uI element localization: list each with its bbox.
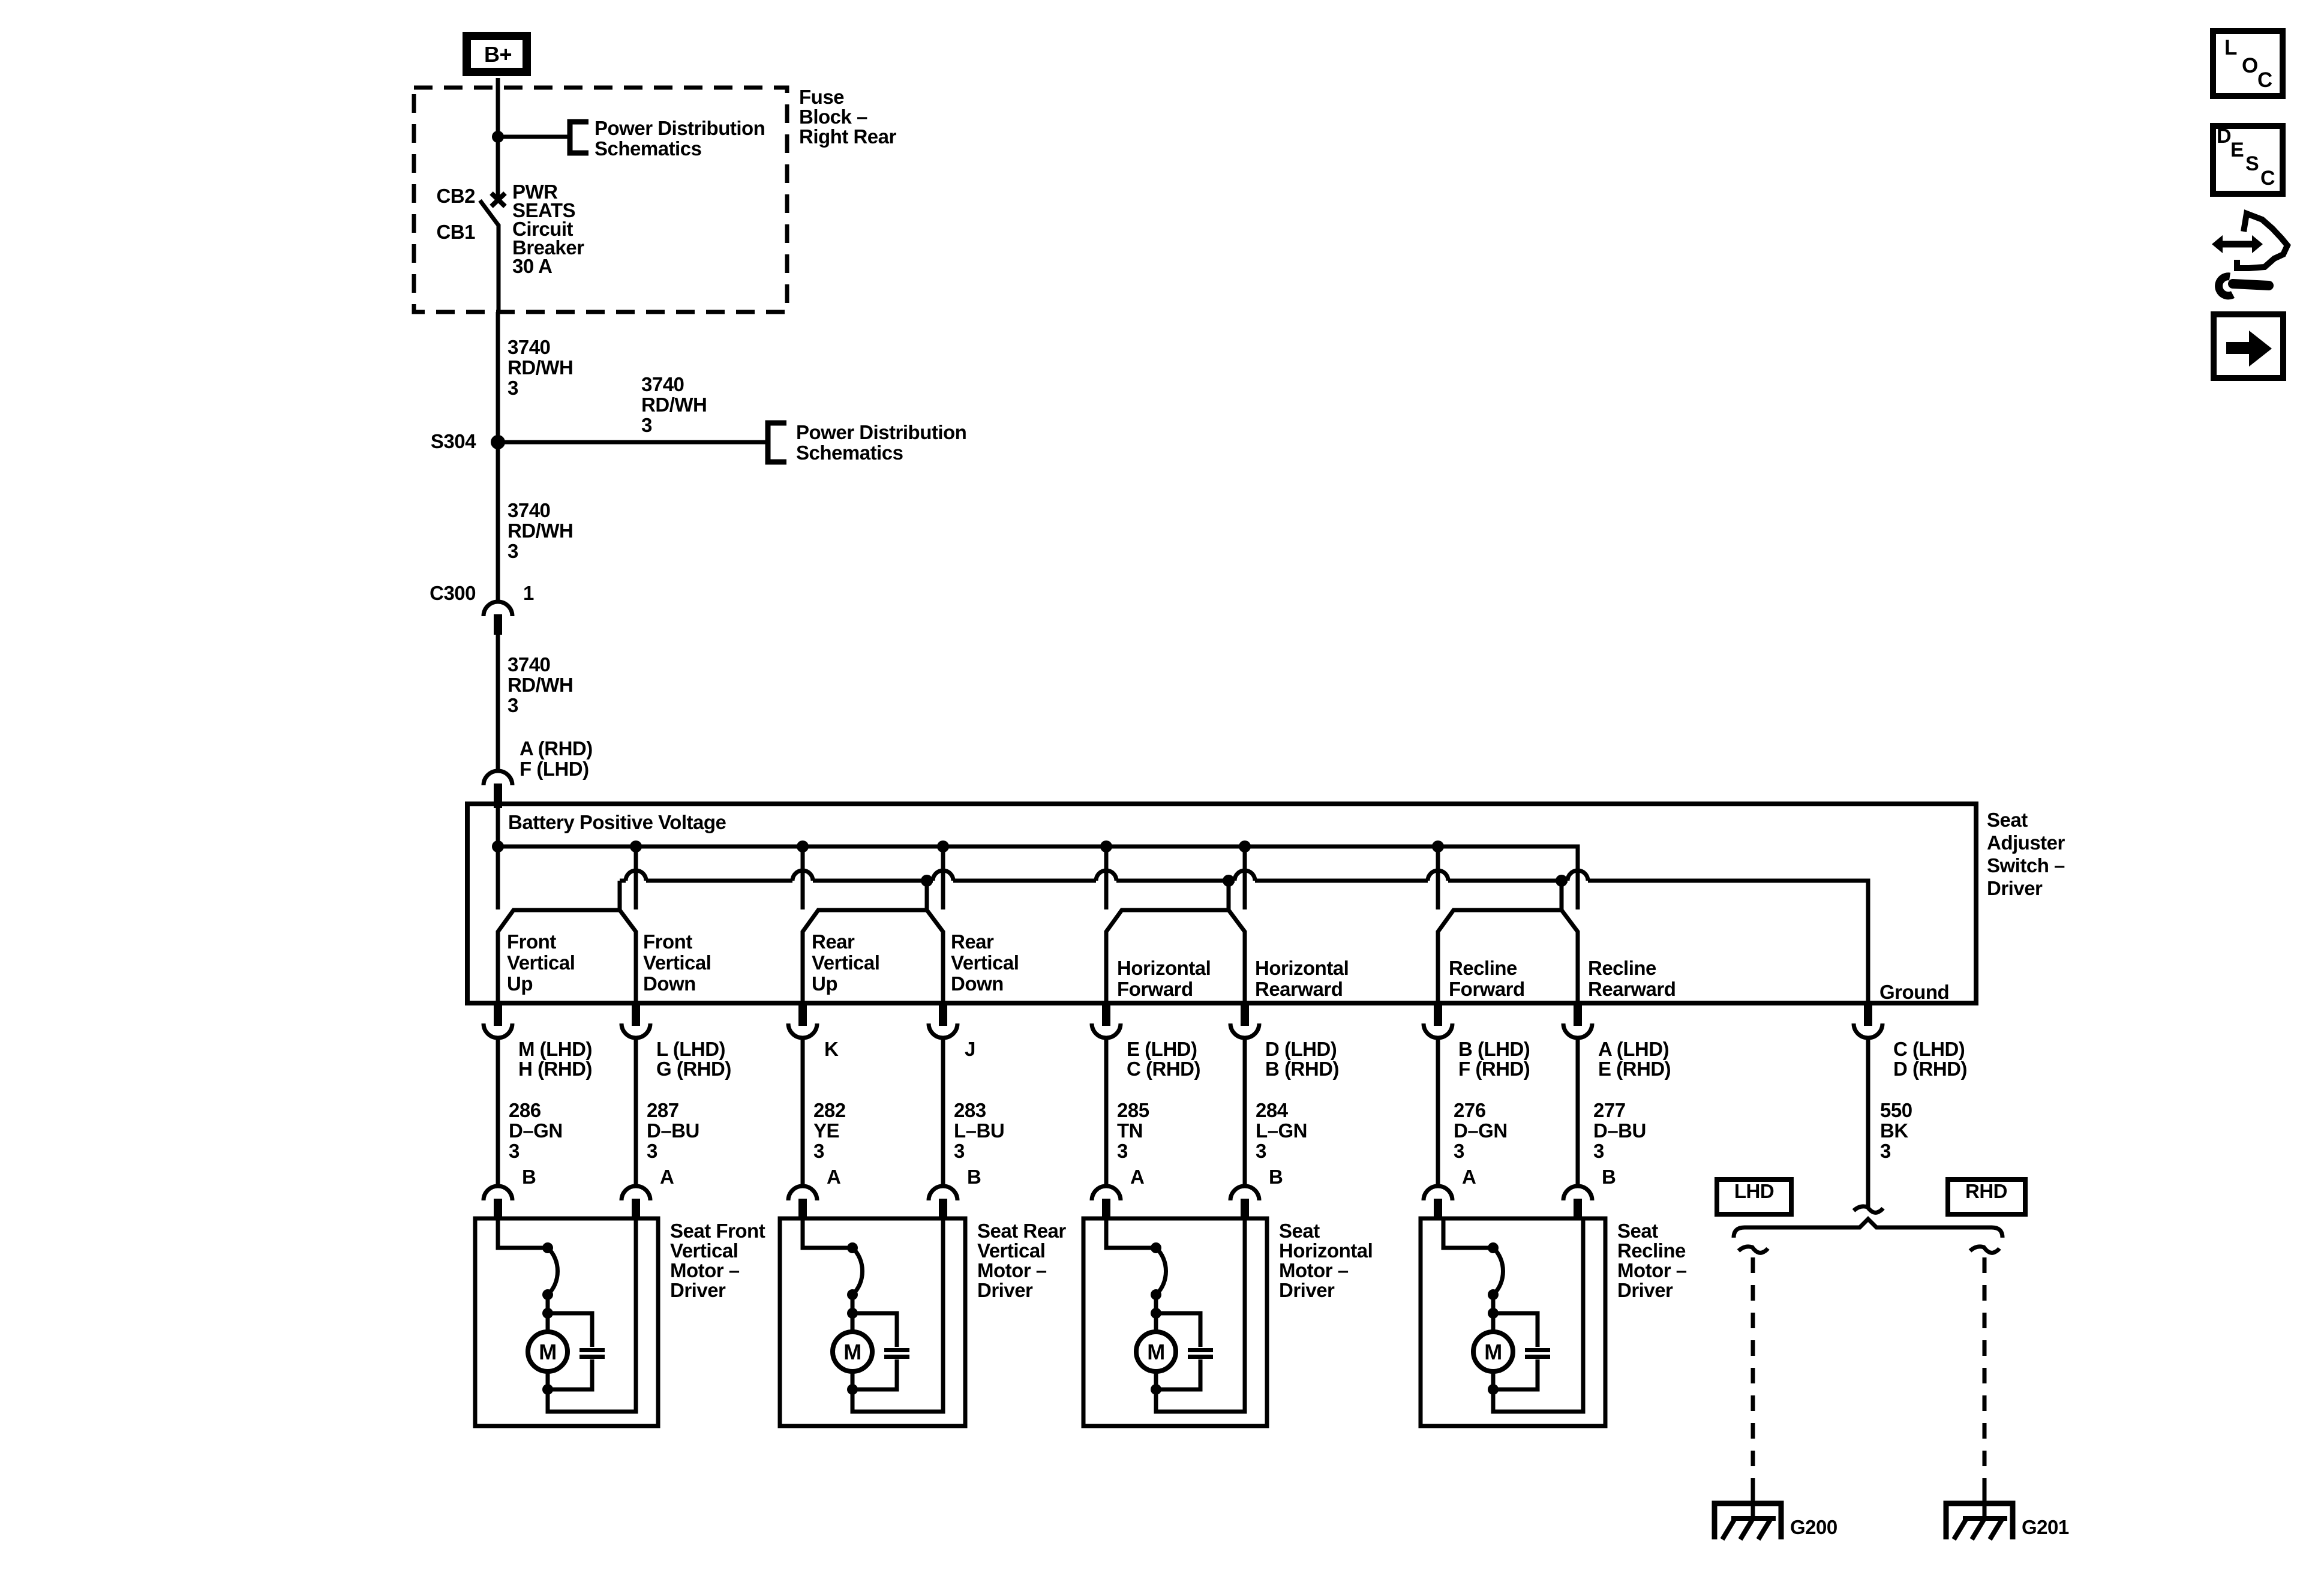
svg-text:Up: Up	[812, 972, 837, 995]
ground line junction dot at T4 riser	[1556, 875, 1568, 887]
ground connector half-circle	[1854, 1023, 1882, 1038]
svg-text:G (RHD): G (RHD)	[656, 1058, 731, 1080]
svg-text:B: B	[1602, 1166, 1616, 1188]
connector half-circle recline rearward (motor side)	[1563, 1186, 1592, 1200]
switch position label Recline Forward	[1449, 957, 1525, 1000]
svg-text:O: O	[2242, 54, 2258, 77]
wire 284 L–GN horizontal rearward	[1243, 1037, 1247, 1187]
pin label K	[824, 1038, 839, 1060]
svg-text:LHD: LHD	[1734, 1180, 1774, 1202]
connector half-circle rear vertical up (switch side)	[788, 1023, 817, 1038]
motor input stub rear vertical up	[798, 1199, 807, 1219]
bus junction dot col 5	[1100, 840, 1112, 852]
bus drop wire to Front Vertical Up contact	[496, 846, 500, 909]
connector half-circle front vertical up (switch side)	[484, 1023, 512, 1038]
svg-text:M (LHD): M (LHD)	[518, 1038, 592, 1060]
svg-text:Adjuster: Adjuster	[1987, 831, 2065, 854]
svg-text:Seat: Seat	[1987, 809, 2028, 831]
svg-text:3740: 3740	[641, 373, 684, 395]
svg-text:Down: Down	[951, 972, 1004, 995]
svg-text:3: 3	[1117, 1140, 1128, 1162]
svg-text:Driver: Driver	[670, 1279, 726, 1301]
svg-text:3: 3	[1256, 1140, 1266, 1162]
motor label Seat Horizontal Motor – Driver	[1279, 1220, 1373, 1301]
bus junction dot col 3	[797, 840, 809, 852]
svg-text:TN: TN	[1117, 1119, 1143, 1142]
switch wiper contact rear vertical	[803, 881, 943, 1003]
svg-text:3: 3	[641, 414, 652, 436]
svg-text:S: S	[2245, 152, 2259, 175]
wire S304 to power distribution bracket	[498, 440, 767, 445]
motor input stub rear vertical down	[939, 1199, 947, 1219]
svg-text:G201: G201	[2022, 1516, 2069, 1538]
svg-text:Fuse: Fuse	[799, 86, 844, 108]
wire 283 L–BU rear vertical down	[941, 1037, 945, 1187]
svg-text:L–GN: L–GN	[1256, 1119, 1307, 1142]
svg-text:3: 3	[508, 377, 518, 399]
switch position label Horizontal Forward	[1117, 957, 1211, 1000]
forward navigation arrow icon	[2214, 314, 2283, 378]
svg-text:Motor –: Motor –	[1617, 1259, 1687, 1281]
bus drop wire to Horizontal Forward contact	[1104, 846, 1109, 909]
svg-text:Motor –: Motor –	[977, 1259, 1047, 1281]
svg-text:B: B	[522, 1166, 536, 1188]
motor input stub recline rearward	[1574, 1199, 1582, 1219]
svg-text:D: D	[2217, 125, 2232, 148]
connector half-circle horizontal rearward (switch side)	[1230, 1023, 1259, 1038]
wire label 283 L–BU 3	[954, 1099, 1004, 1162]
svg-text:3: 3	[1593, 1140, 1604, 1162]
motor input stub horizontal rearward	[1241, 1199, 1249, 1219]
svg-text:Battery Positive Voltage: Battery Positive Voltage	[508, 811, 726, 833]
switch output stub front vertical down	[632, 1003, 640, 1026]
svg-text:282: 282	[813, 1099, 846, 1121]
svg-text:Seat: Seat	[1617, 1220, 1658, 1242]
bus junction dot col 7	[1432, 840, 1444, 852]
svg-text:3: 3	[509, 1140, 520, 1162]
svg-text:Up: Up	[507, 972, 533, 995]
svg-text:D–BU: D–BU	[1593, 1119, 1646, 1142]
motor input stub horizontal forward	[1102, 1199, 1110, 1219]
svg-text:Block –: Block –	[799, 106, 867, 128]
bus junction dot col 6	[1239, 840, 1251, 852]
svg-text:B (LHD): B (LHD)	[1458, 1038, 1530, 1060]
wire 282 YE rear vertical up	[801, 1037, 805, 1187]
svg-text:C: C	[2257, 68, 2272, 92]
motor input stub front vertical up	[494, 1199, 502, 1219]
connector half-circle recline forward (switch side)	[1424, 1023, 1452, 1038]
ground line junction dot at T3 riser	[1223, 875, 1235, 887]
switch output stub horizontal rearward	[1241, 1003, 1249, 1026]
connector half-circle horizontal rearward (motor side)	[1230, 1186, 1259, 1200]
connector half-circle horizontal forward (motor side)	[1092, 1186, 1121, 1200]
wire 550 BK 3	[1866, 1037, 1870, 1207]
switch feed connector at box entry	[484, 771, 512, 808]
breaker value label PWR SEATS Circuit Breaker 30 A	[512, 181, 584, 277]
connector half-circle front vertical down (motor side)	[621, 1186, 650, 1200]
wire label 3740 RD/WH 3 (seg 2)	[508, 499, 573, 562]
svg-text:A: A	[1130, 1166, 1144, 1188]
svg-text:30 A: 30 A	[512, 255, 552, 277]
svg-text:Recline: Recline	[1449, 957, 1517, 979]
svg-text:M: M	[539, 1340, 557, 1364]
svg-text:K: K	[824, 1038, 839, 1060]
LHD option box	[1717, 1179, 1791, 1214]
DESC navigation icon	[2213, 125, 2283, 194]
pin label C (LHD) D (RHD)	[1893, 1038, 1967, 1080]
junction node in fuse block	[492, 131, 504, 143]
svg-text:BK: BK	[1880, 1119, 1908, 1142]
svg-text:1: 1	[523, 582, 534, 604]
svg-text:Rear: Rear	[951, 930, 994, 953]
svg-text:E (RHD): E (RHD)	[1598, 1058, 1671, 1080]
wire 287 D–BU front vertical down	[634, 1037, 638, 1187]
svg-text:3: 3	[508, 540, 518, 562]
dashed wire to G201	[1983, 1257, 1987, 1488]
svg-text:Seat: Seat	[1279, 1220, 1320, 1242]
power feed symbol B+	[467, 36, 527, 72]
svg-text:3: 3	[1880, 1140, 1891, 1162]
svg-text:E: E	[2230, 139, 2244, 161]
bus junction dot col 1	[492, 840, 504, 852]
svg-text:Vertical: Vertical	[977, 1239, 1045, 1262]
svg-text:3: 3	[813, 1140, 824, 1162]
svg-text:285: 285	[1117, 1099, 1149, 1121]
motor label Seat Recline Motor – Driver	[1617, 1220, 1687, 1301]
pin label M (LHD) H (RHD)	[518, 1038, 592, 1080]
svg-text:286: 286	[509, 1099, 541, 1121]
svg-text:J: J	[965, 1038, 975, 1060]
bus junction dot col 4	[937, 840, 949, 852]
svg-text:Schematics: Schematics	[594, 137, 701, 160]
switch output stub rear vertical down	[939, 1003, 947, 1026]
svg-text:CB2: CB2	[436, 185, 475, 207]
svg-text:YE: YE	[813, 1119, 839, 1142]
motor M: Seat Front Vertical Motor - Driver	[475, 1218, 658, 1426]
wire label 3740 RD/WH 3 (seg 3)	[508, 653, 573, 716]
svg-text:Power Distribution: Power Distribution	[796, 421, 966, 443]
connector half-circle recline rearward (switch side)	[1563, 1023, 1592, 1038]
svg-text:M: M	[1484, 1340, 1502, 1364]
connector half-circle front vertical down (switch side)	[621, 1023, 650, 1038]
motor M: Seat Rear Vertical Motor - Driver	[780, 1218, 965, 1426]
svg-text:Ground: Ground	[1879, 981, 1949, 1003]
connector half-circle rear vertical down (motor side)	[929, 1186, 957, 1200]
svg-text:Motor –: Motor –	[1279, 1259, 1349, 1281]
svg-text:Driver: Driver	[1279, 1279, 1335, 1301]
wire 276 D–GN recline forward	[1436, 1037, 1440, 1187]
switch output stub rear vertical up	[798, 1003, 807, 1026]
svg-text:276: 276	[1454, 1099, 1486, 1121]
svg-text:B: B	[967, 1166, 981, 1188]
svg-text:B: B	[1269, 1166, 1283, 1188]
switch position label Rear Vertical Down	[951, 930, 1019, 995]
svg-text:L (LHD): L (LHD)	[656, 1038, 725, 1060]
svg-text:L–BU: L–BU	[954, 1119, 1004, 1142]
component label: Seat Adjuster Switch - Driver	[1987, 809, 2065, 899]
seat adjuster switch box S	[467, 804, 1976, 1003]
motor input stub recline forward	[1434, 1199, 1442, 1219]
connector half-circle front vertical up (motor side)	[484, 1186, 512, 1200]
svg-text:RHD: RHD	[1965, 1180, 2007, 1202]
bus junction dot col 2	[630, 840, 642, 852]
svg-text:D–BU: D–BU	[647, 1119, 699, 1142]
svg-text:A: A	[827, 1166, 840, 1188]
svg-text:550: 550	[1880, 1099, 1912, 1121]
svg-text:C300: C300	[430, 582, 476, 604]
svg-text:Schematics: Schematics	[796, 442, 903, 464]
svg-text:RD/WH: RD/WH	[508, 674, 573, 696]
svg-text:C (LHD): C (LHD)	[1893, 1038, 1965, 1060]
svg-text:S304: S304	[431, 430, 476, 452]
svg-text:3: 3	[954, 1140, 965, 1162]
RHD option box	[1948, 1179, 2025, 1214]
svg-text:Rearward: Rearward	[1588, 978, 1676, 1000]
bus drop wire to Rear Vertical Up contact	[801, 846, 805, 909]
svg-text:3: 3	[647, 1140, 657, 1162]
svg-text:C: C	[2260, 167, 2275, 190]
svg-text:Seat Rear: Seat Rear	[977, 1220, 1066, 1242]
svg-text:Horizontal: Horizontal	[1255, 957, 1349, 979]
svg-text:L: L	[2224, 36, 2237, 59]
svg-text:Recline: Recline	[1588, 957, 1656, 979]
bus drop wire to Front Vertical Down contact	[634, 846, 638, 909]
ground symbol G200	[1715, 1503, 1781, 1539]
pin label J	[965, 1038, 975, 1060]
motor label Seat Front Vertical Motor – Driver	[670, 1220, 765, 1301]
svg-text:Power Distribution: Power Distribution	[594, 117, 765, 139]
svg-text:CB1: CB1	[436, 221, 475, 243]
svg-text:F (LHD): F (LHD)	[520, 758, 589, 780]
svg-text:C (RHD): C (RHD)	[1127, 1058, 1200, 1080]
svg-text:E (LHD): E (LHD)	[1127, 1038, 1197, 1060]
pin label E (LHD) C (RHD)	[1127, 1038, 1200, 1080]
svg-text:Vertical: Vertical	[812, 951, 879, 974]
wire C300 to switch connector	[496, 635, 500, 772]
switch output stub recline forward	[1434, 1003, 1442, 1026]
circuit breaker CB1/CB2 PWR SEATS 30 A	[480, 137, 505, 312]
wire label 3740 RD/WH 3 (seg 1)	[508, 336, 573, 399]
svg-text:Driver: Driver	[977, 1279, 1033, 1301]
svg-text:D (RHD): D (RHD)	[1893, 1058, 1967, 1080]
switch ground wire with hops	[620, 870, 1868, 1003]
svg-text:A: A	[660, 1166, 674, 1188]
wire label 285 TN 3	[1117, 1099, 1149, 1162]
svg-text:3740: 3740	[508, 336, 550, 358]
wire label 282 YE 3	[813, 1099, 846, 1162]
svg-text:RD/WH: RD/WH	[508, 356, 573, 379]
pin label D (LHD) B (RHD)	[1265, 1038, 1339, 1080]
svg-text:Right Rear: Right Rear	[799, 125, 897, 148]
svg-text:3: 3	[508, 694, 518, 716]
dashed wire to G200	[1751, 1257, 1755, 1488]
svg-text:Driver: Driver	[1617, 1279, 1673, 1301]
bus drop wire to Horizontal Rearward contact	[1243, 846, 1247, 909]
svg-text:G200: G200	[1790, 1516, 1837, 1538]
svg-text:3740: 3740	[508, 653, 550, 676]
svg-text:3740: 3740	[508, 499, 550, 521]
bus drop wire to Recline Forward contact	[1436, 846, 1440, 909]
pin label B (LHD) F (RHD)	[1458, 1038, 1530, 1080]
wire label 277 D–BU 3	[1593, 1099, 1646, 1162]
inline connector squiggle (RHD ground wire)	[1970, 1247, 1999, 1253]
switch wiper contact horizontal	[1106, 881, 1245, 1003]
pin label A (LHD) E (RHD)	[1598, 1038, 1671, 1080]
wire B+ to fuse block	[496, 78, 500, 137]
battery positive bus wire	[498, 808, 1578, 909]
connector half-circle recline forward (motor side)	[1424, 1186, 1452, 1200]
svg-text:Down: Down	[643, 972, 696, 995]
svg-text:D–GN: D–GN	[509, 1119, 563, 1142]
wire to power distribution bracket (top)	[498, 135, 569, 139]
svg-text:284: 284	[1256, 1099, 1289, 1121]
wire 285 TN horizontal forward	[1104, 1037, 1109, 1187]
svg-text:Driver: Driver	[1987, 877, 2043, 899]
svg-text:Forward: Forward	[1117, 978, 1193, 1000]
svg-text:F (RHD): F (RHD)	[1458, 1058, 1530, 1080]
switch wiper contact front vertical	[498, 881, 636, 1003]
pin label A (RHD) F (LHD)	[520, 737, 593, 780]
wire label 3740 RD/WH 3 (branch)	[641, 373, 707, 436]
switch position label Front Vertical Up	[507, 930, 575, 995]
svg-text:Switch –: Switch –	[1987, 854, 2065, 876]
svg-text:283: 283	[954, 1099, 986, 1121]
schematic navigation icon (arrows and wrench)	[2212, 214, 2287, 296]
switch output stub recline rearward	[1574, 1003, 1582, 1026]
svg-text:B+: B+	[484, 42, 512, 67]
svg-text:Horizontal: Horizontal	[1117, 957, 1211, 979]
svg-text:Rearward: Rearward	[1255, 978, 1343, 1000]
svg-text:Seat Front: Seat Front	[670, 1220, 765, 1242]
connector half-circle horizontal forward (switch side)	[1092, 1023, 1121, 1038]
switch position label Rear Vertical Up	[812, 930, 879, 995]
pin label L (LHD) G (RHD)	[656, 1038, 731, 1080]
wire label 550 BK 3	[1880, 1099, 1912, 1162]
switch position label Front Vertical Down	[643, 930, 711, 995]
ground symbol G201	[1946, 1503, 2013, 1539]
svg-text:Horizontal: Horizontal	[1279, 1239, 1373, 1262]
connector half-circle rear vertical down (switch side)	[929, 1023, 957, 1038]
switch wiper contact recline	[1438, 881, 1578, 1003]
svg-text:Vertical: Vertical	[951, 951, 1019, 974]
svg-text:B (RHD): B (RHD)	[1265, 1058, 1339, 1080]
splice node S304	[491, 435, 505, 449]
wire fuse block to S304	[496, 312, 500, 442]
wire 286 D–GN front vertical up	[496, 1037, 500, 1187]
switch output stub horizontal forward	[1102, 1003, 1110, 1026]
bus drop wire to Rear Vertical Down contact	[941, 846, 945, 909]
svg-text:M: M	[1147, 1340, 1165, 1364]
svg-text:M: M	[843, 1340, 861, 1364]
wire label 276 D–GN 3	[1454, 1099, 1508, 1162]
svg-text:Forward: Forward	[1449, 978, 1525, 1000]
brace splitting LHD/RHD grounds	[1734, 1219, 2002, 1238]
svg-text:Vertical: Vertical	[643, 951, 711, 974]
svg-text:Recline: Recline	[1617, 1239, 1686, 1262]
svg-text:277: 277	[1593, 1099, 1626, 1121]
svg-text:A (RHD): A (RHD)	[520, 737, 593, 760]
fuse block dashed box	[414, 88, 787, 312]
svg-text:Front: Front	[507, 930, 556, 953]
wire label 287 D–BU 3	[647, 1099, 699, 1162]
motor M: Seat Horizontal Motor - Driver	[1083, 1218, 1267, 1426]
inline connector squiggle (LHD ground wire)	[1739, 1247, 1768, 1253]
svg-text:RD/WH: RD/WH	[508, 520, 573, 542]
switch output stub front vertical up	[494, 1003, 502, 1026]
motor M: Seat Recline Motor - Driver	[1421, 1218, 1605, 1426]
LOC navigation icon	[2213, 31, 2283, 96]
svg-text:Motor –: Motor –	[670, 1259, 740, 1281]
svg-text:D–GN: D–GN	[1454, 1119, 1508, 1142]
svg-text:Vertical: Vertical	[507, 951, 575, 974]
ground output stub	[1864, 1003, 1872, 1026]
wire label 284 L–GN 3	[1256, 1099, 1307, 1162]
off-page bracket: Power Distribution Schematics (top)	[570, 122, 588, 153]
svg-text:D (LHD): D (LHD)	[1265, 1038, 1337, 1060]
svg-text:Front: Front	[643, 930, 692, 953]
svg-text:3: 3	[1454, 1140, 1464, 1162]
wire 277 D–BU recline rearward	[1576, 1037, 1580, 1187]
motor input stub front vertical down	[632, 1199, 640, 1219]
motor label Seat Rear Vertical Motor – Driver	[977, 1220, 1066, 1301]
svg-text:RD/WH: RD/WH	[641, 394, 707, 416]
connector half-circle rear vertical up (motor side)	[788, 1186, 817, 1200]
svg-text:H (RHD): H (RHD)	[518, 1058, 592, 1080]
connector C300 pin 1	[484, 602, 512, 635]
svg-text:A (LHD): A (LHD)	[1598, 1038, 1669, 1060]
switch position label Horizontal Rearward	[1255, 957, 1349, 1000]
svg-text:287: 287	[647, 1099, 679, 1121]
ground line junction dot at T2 riser	[921, 875, 933, 887]
svg-text:Vertical: Vertical	[670, 1239, 738, 1262]
switch position label Recline Rearward	[1588, 957, 1676, 1000]
svg-text:Rear: Rear	[812, 930, 855, 953]
off-page bracket: Power Distribution Schematics (middle)	[768, 423, 786, 462]
svg-text:A: A	[1462, 1166, 1476, 1188]
wire label 286 D–GN 3	[509, 1099, 563, 1162]
wire S304 to C300	[496, 442, 500, 602]
fuse block label: Fuse Block - Right Rear	[799, 86, 897, 148]
inline connector squiggle (ground wire)	[1854, 1206, 1883, 1212]
